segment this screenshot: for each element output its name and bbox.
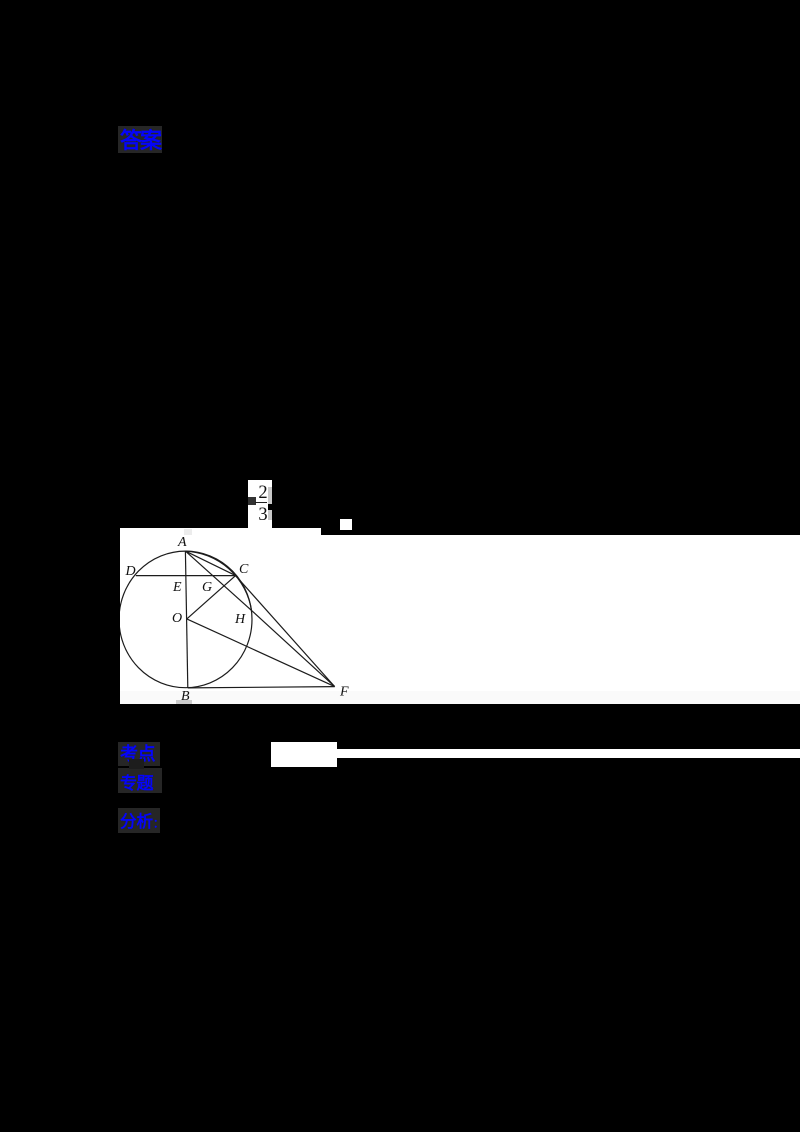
- svg-text:G: G: [202, 580, 212, 595]
- line OF: [187, 619, 335, 687]
- label keypoint: [120, 744, 155, 764]
- svg-text:D: D: [125, 564, 136, 579]
- svg-text:H: H: [234, 612, 246, 627]
- label answer1 halo: [118, 126, 162, 153]
- line BF: [188, 687, 335, 688]
- label topic: [120, 774, 153, 793]
- answer underline strip: [337, 749, 800, 758]
- minus sign: [248, 497, 256, 505]
- big white band right: [120, 535, 800, 704]
- numerator 2: [257, 483, 269, 500]
- label keypoint halo: [118, 742, 160, 766]
- line AH: [185, 551, 251, 610]
- gray tab above A: [184, 529, 192, 535]
- svg-text:C: C: [239, 562, 249, 577]
- label answer1: [120, 129, 160, 153]
- label topic halo: [118, 768, 162, 793]
- line AB: [185, 551, 187, 688]
- svg-text:E: E: [172, 580, 182, 595]
- fraction box: [248, 480, 273, 529]
- line OC: [187, 576, 236, 619]
- denominator 3: [257, 505, 269, 522]
- answer white box: [271, 742, 337, 767]
- faint column between labels: [129, 759, 144, 769]
- label analysis: [120, 813, 164, 833]
- svg-text:O: O: [172, 611, 182, 626]
- gray tab below B: [176, 700, 192, 704]
- line HF: [252, 610, 335, 686]
- chord DC: [136, 575, 236, 577]
- fraction right shade: [268, 487, 272, 520]
- geometry figure svg: [120, 528, 352, 705]
- fraction bar: [255, 502, 267, 504]
- svg-text:A: A: [177, 535, 187, 550]
- bottom faint strip: [120, 691, 800, 704]
- line CF: [236, 576, 335, 687]
- notch box: [340, 519, 352, 530]
- line AC: [185, 551, 235, 576]
- comma mark: [268, 504, 275, 510]
- svg-text:B: B: [181, 689, 190, 704]
- figure white box: [120, 528, 321, 704]
- circle O: [119, 551, 252, 688]
- label analysis halo: [118, 808, 160, 833]
- svg-text:F: F: [339, 685, 349, 700]
- arc ACH: [185, 551, 251, 610]
